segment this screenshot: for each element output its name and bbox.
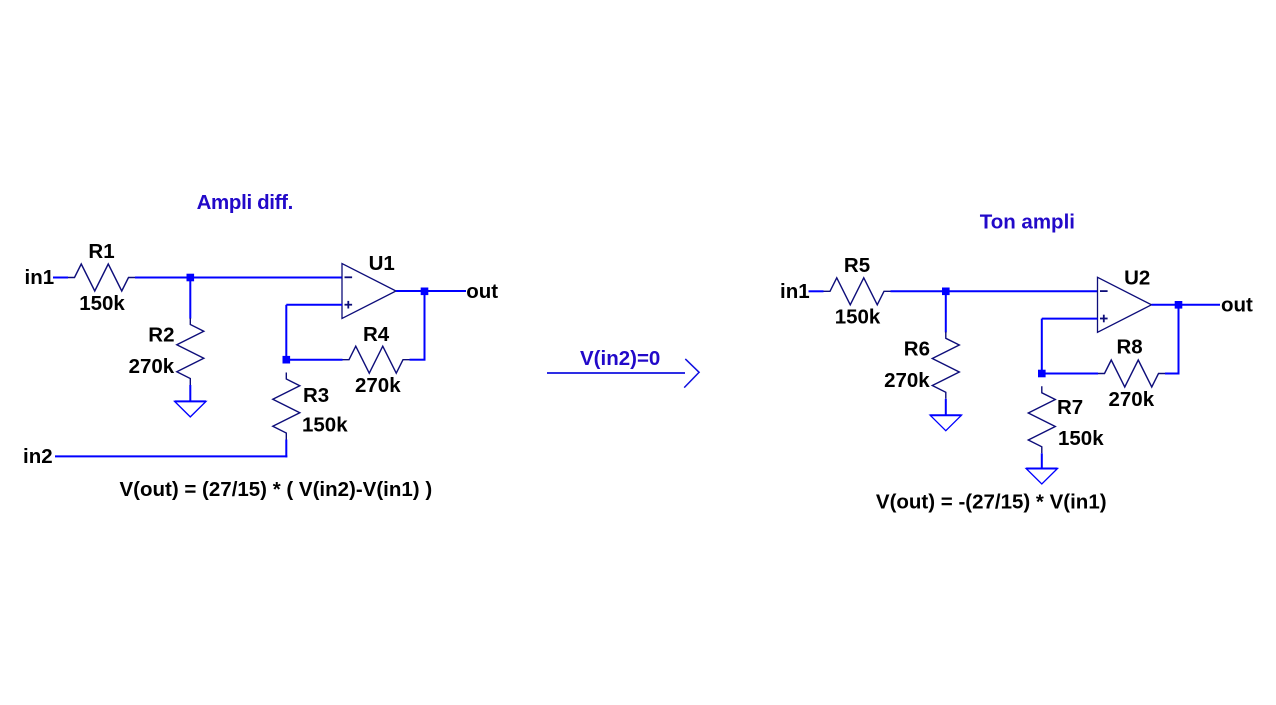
node junction R3/R4 (left): [283, 356, 291, 364]
svg-text:R2: R2: [148, 324, 174, 347]
node output junction (left): [421, 288, 429, 296]
arrow head chevron: [684, 359, 699, 388]
svg-text:R7: R7: [1057, 396, 1083, 419]
svg-text:R8: R8: [1117, 336, 1143, 359]
svg-text:R1: R1: [88, 240, 114, 263]
wire node to R8: [1041, 373, 1098, 375]
resistor R1: [68, 264, 135, 291]
wire U2 output to out: [1152, 304, 1221, 306]
wire junction up toward U1 + input: [285, 305, 287, 360]
wire in1 to R1: [53, 277, 68, 279]
svg-text:150k: 150k: [835, 306, 881, 329]
svg-text:R4: R4: [363, 323, 390, 346]
wire in2 horizontal: [55, 455, 287, 457]
resistor R5: [824, 278, 891, 305]
wire junction down to R2: [189, 278, 191, 319]
svg-text:R3: R3: [303, 384, 329, 407]
node junction R1/R2: [187, 274, 195, 282]
svg-text:V(out) = -(27/15) * V(in1): V(out) = -(27/15) * V(in1): [876, 491, 1107, 514]
ground below R7: [1026, 469, 1057, 485]
svg-text:R6: R6: [904, 338, 930, 361]
resistor R2: [177, 318, 204, 385]
svg-text:in2: in2: [23, 445, 53, 468]
wire in1 to R5: [809, 290, 824, 292]
wire to U1 non-inverting input: [286, 304, 342, 306]
resistor R8: [1098, 360, 1165, 387]
wire junction down to R6: [945, 291, 947, 332]
svg-text:V(in2)=0: V(in2)=0: [580, 347, 660, 370]
svg-text:R5: R5: [844, 254, 870, 277]
wire R6 to ground: [945, 399, 947, 416]
arrow shaft: [547, 372, 685, 374]
resistor R6: [932, 332, 959, 399]
wire R2 to ground: [189, 385, 191, 402]
wire R7 down to ground: [1041, 453, 1043, 469]
wire R5 to U2 inverting input: [891, 290, 1098, 292]
svg-text:out: out: [1221, 294, 1253, 317]
op-amp U1: [342, 264, 396, 319]
op-amp U2: [1098, 277, 1152, 332]
svg-text:150k: 150k: [302, 414, 348, 437]
ground below R2: [175, 401, 206, 417]
wire R1 to U1 inverting input: [135, 277, 342, 279]
svg-text:150k: 150k: [1058, 427, 1104, 450]
svg-text:Ton ampli: Ton ampli: [980, 210, 1075, 233]
wire feedback down from output node: [424, 291, 426, 359]
svg-text:150k: 150k: [79, 292, 125, 315]
wire R3 down to in2 corner: [285, 440, 287, 458]
wire junction up toward U2 + input: [1041, 319, 1043, 374]
svg-text:out: out: [466, 280, 498, 303]
svg-text:U2: U2: [1124, 267, 1150, 290]
svg-text:270k: 270k: [355, 374, 401, 397]
wire U1 output to out: [396, 290, 466, 292]
wire R8 right lead to feedback: [1165, 373, 1180, 375]
wire R4 right lead to feedback: [410, 359, 426, 361]
svg-text:in1: in1: [25, 266, 55, 289]
svg-text:V(out) = (27/15) * ( V(in2)-V(: V(out) = (27/15) * ( V(in2)-V(in1) ): [120, 478, 433, 501]
wire feedback down from output node (right): [1178, 305, 1180, 374]
ground below R6: [930, 415, 961, 431]
wire node to R4: [285, 359, 342, 361]
resistor R7: [1028, 386, 1055, 453]
svg-text:270k: 270k: [884, 369, 930, 392]
svg-text:270k: 270k: [1109, 388, 1155, 411]
svg-text:in1: in1: [780, 280, 810, 303]
svg-text:U1: U1: [369, 252, 395, 275]
node junction R5/R6: [942, 288, 950, 296]
resistor R4: [343, 346, 410, 373]
svg-text:270k: 270k: [129, 355, 175, 378]
wire to U2 non-inverting input: [1042, 318, 1098, 320]
resistor R3: [273, 373, 300, 440]
svg-text:Ampli diff.: Ampli diff.: [197, 191, 293, 214]
node output junction (right): [1175, 301, 1183, 309]
node junction R7/R8 (right): [1038, 370, 1046, 378]
